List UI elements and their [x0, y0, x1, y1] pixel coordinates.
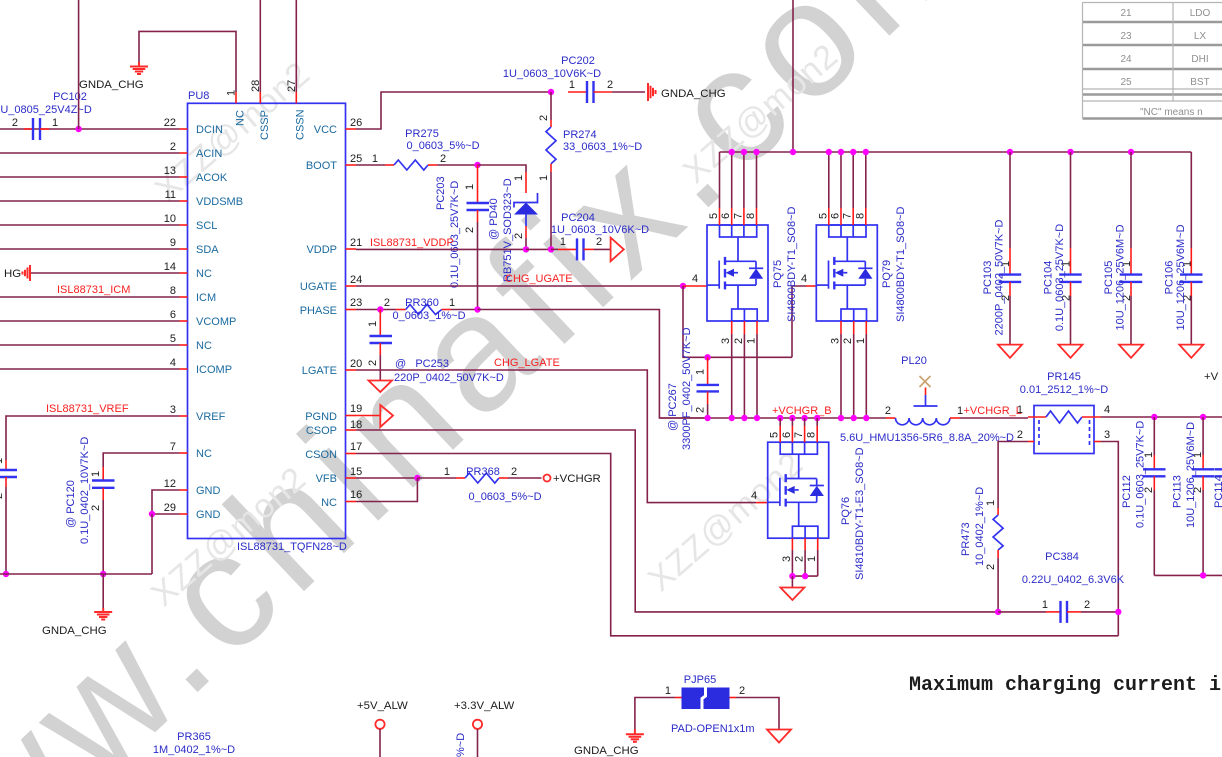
capacitor PC113 — [1172, 417, 1215, 575]
power ground triangle under PQ76 — [780, 588, 804, 601]
svg-text:PR274: PR274 — [563, 129, 597, 141]
inductor PL20 — [840, 355, 1014, 444]
wire VREF — [6, 416, 180, 460]
PU8 top pin names rotated — [235, 109, 307, 140]
svg-text:PC102: PC102 — [53, 91, 87, 103]
node PC103 top junction — [1007, 149, 1013, 155]
wire NC pin5 — [0, 344, 180, 346]
svg-text:10: 10 — [164, 213, 176, 225]
svg-text:1: 1 — [957, 405, 963, 417]
svg-text:PC104: PC104 — [1043, 261, 1055, 295]
svg-text:0_0603_5%~D: 0_0603_5%~D — [406, 140, 479, 152]
wire CSSP pin28 up — [259, 0, 261, 92]
svg-text:SDA: SDA — [196, 244, 219, 256]
svg-text:PC204: PC204 — [561, 212, 595, 224]
svg-text:PC384: PC384 — [1045, 551, 1079, 563]
svg-text:CSON: CSON — [305, 449, 337, 461]
svg-text:2: 2 — [1017, 429, 1023, 441]
PU8 right pin names — [300, 124, 338, 509]
svg-text:0.22U_0402_6.3V6K: 0.22U_0402_6.3V6K — [1022, 574, 1125, 586]
svg-text:10U_1206_25V6M~D: 10U_1206_25V6M~D — [1115, 224, 1127, 330]
wire PR145 pin2 to PR473 — [998, 442, 1028, 509]
svg-text:13: 13 — [164, 165, 176, 177]
node BOOT junction — [474, 162, 480, 168]
svg-text:6: 6 — [720, 213, 732, 219]
svg-text:0.01_2512_1%~D: 0.01_2512_1%~D — [1020, 384, 1108, 396]
svg-text:CSOP: CSOP — [306, 425, 337, 437]
svg-text:2: 2 — [170, 141, 176, 153]
svg-text:2: 2 — [794, 556, 806, 562]
svg-text:+VCHGR_L: +VCHGR_L — [964, 405, 1022, 417]
svg-text:7: 7 — [732, 213, 744, 219]
wire PQ79 pin7 — [852, 152, 854, 208]
svg-text:1: 1 — [665, 685, 671, 697]
svg-text:4: 4 — [801, 273, 807, 285]
svg-text:VCC: VCC — [314, 124, 337, 136]
power ground triangle at PJP65 — [767, 730, 791, 743]
capacitor PC105 — [1103, 152, 1142, 345]
svg-text:1: 1 — [746, 338, 758, 344]
svg-text:9: 9 — [170, 237, 176, 249]
svg-text:0.1U_0603_25V7K~D: 0.1U_0603_25V7K~D — [1054, 224, 1066, 331]
wire PQ79 pin1 — [865, 321, 867, 334]
svg-text:ISL88731_TQFN28~D: ISL88731_TQFN28~D — [237, 541, 347, 553]
svg-text:6: 6 — [830, 213, 842, 219]
capacitor PC114 (clipped at edge) — [1213, 417, 1222, 508]
svg-text:1: 1 — [985, 500, 997, 506]
svg-text:%~D: %~D — [455, 733, 467, 757]
PU8 left pin numbers — [164, 117, 176, 514]
wire PQ75 pin5 — [719, 152, 721, 208]
svg-text:CHG_LGATE: CHG_LGATE — [494, 357, 560, 369]
svg-text:0_0603_1%~D: 0_0603_1%~D — [392, 310, 465, 322]
svg-text:VDDSMB: VDDSMB — [196, 196, 243, 208]
wire SDA — [0, 248, 180, 250]
svg-text:RB751V_SOD323~D: RB751V_SOD323~D — [502, 178, 514, 282]
wire PQ75 pin8 — [756, 152, 758, 208]
resistor PR473 vertical — [960, 487, 1003, 612]
capacitor PC106 — [1163, 152, 1202, 345]
capacitor PC120 — [65, 437, 115, 544]
svg-text:PR365: PR365 — [177, 731, 211, 743]
svg-text:VFB: VFB — [316, 473, 337, 485]
svg-text:ISL88731_ICM: ISL88731_ICM — [57, 284, 130, 296]
wire DCIN vertical to top — [78, 0, 80, 129]
svg-text:1: 1 — [444, 466, 450, 478]
wire PR145 pin3 down — [1101, 442, 1119, 636]
node PHASE/PC203 junction — [474, 306, 480, 312]
wire PQ76 pin1 — [817, 538, 819, 550]
pin digits PQ76 bottom — [781, 556, 818, 562]
svg-text:21: 21 — [350, 237, 362, 249]
svg-text:1: 1 — [0, 458, 5, 464]
svg-text:BST: BST — [1190, 77, 1209, 88]
svg-text:1: 1 — [90, 471, 102, 477]
wire LGATE stub to PQ76 — [756, 502, 768, 504]
wire PQ75 pin6 — [731, 152, 733, 208]
svg-text:1: 1 — [1017, 404, 1023, 416]
wire PC202 to ground — [612, 91, 645, 93]
wire stem to power ground — [791, 576, 793, 587]
svg-text:1: 1 — [806, 556, 818, 562]
svg-text:24: 24 — [1120, 54, 1132, 65]
svg-text:Maximum charging current i: Maximum charging current i — [909, 674, 1221, 697]
PU8 right pin numbers — [350, 117, 362, 501]
wire PHASE with PR360 — [356, 297, 478, 322]
wire VCOMP — [0, 320, 180, 322]
svg-text:2: 2 — [12, 117, 18, 129]
transistor Q=PQ76 — [768, 442, 866, 580]
diode PD40 RB751V — [488, 172, 538, 282]
svg-text:NC: NC — [196, 268, 212, 280]
svg-text:5: 5 — [817, 213, 829, 219]
node PC384/CSON junction — [1115, 609, 1121, 615]
svg-text:VCOMP: VCOMP — [196, 316, 236, 328]
node PR473/CSOP junction — [995, 609, 1001, 615]
op-amp controller U=PU8 ISL88731 box — [188, 90, 347, 553]
svg-text:SCL: SCL — [196, 220, 217, 232]
capacitor PC253 — [367, 310, 504, 385]
svg-text:VREF: VREF — [196, 411, 226, 423]
svg-text:PQ75: PQ75 — [772, 260, 784, 288]
node input junction — [790, 149, 796, 155]
capacitor PC104 — [1043, 152, 1082, 345]
wire NC16 to VFB — [356, 478, 417, 502]
svg-text:2200P_0402_50V7K~D: 2200P_0402_50V7K~D — [994, 219, 1006, 335]
PU8 left pin names — [196, 124, 243, 521]
nodes PQ79 source junctions — [838, 415, 844, 421]
svg-text:SI4800BDY-T1_SO8~D: SI4800BDY-T1_SO8~D — [786, 206, 798, 322]
svg-text:PQ76: PQ76 — [840, 497, 852, 525]
wire PQ75 pin3 — [731, 321, 733, 334]
svg-text:1: 1 — [449, 297, 455, 309]
svg-text:1: 1 — [367, 321, 379, 327]
svg-text:CSSP: CSSP — [259, 110, 271, 140]
svg-text:GND: GND — [196, 485, 221, 497]
svg-text:25: 25 — [350, 153, 362, 165]
svg-text:6: 6 — [781, 432, 793, 438]
wire CSOP routing — [356, 430, 998, 612]
svg-text:@ PD40: @ PD40 — [488, 198, 500, 240]
svg-text:ISL88731_VREF: ISL88731_VREF — [46, 403, 129, 415]
capacitor PC203 — [435, 165, 489, 310]
svg-text:7: 7 — [793, 432, 805, 438]
svg-text:10U_1206_25V6M~D: 10U_1206_25V6M~D — [1185, 422, 1197, 528]
svg-text:PHASE: PHASE — [300, 305, 337, 317]
svg-text:22: 22 — [164, 117, 176, 129]
svg-text:LX: LX — [1194, 31, 1207, 42]
node VFB junction — [414, 475, 420, 481]
svg-text:5: 5 — [170, 333, 176, 345]
svg-text:1: 1 — [538, 175, 550, 181]
capacitor PC384 — [998, 551, 1125, 623]
svg-text:15: 15 — [350, 466, 362, 478]
svg-text:VDDP: VDDP — [306, 244, 337, 256]
wire UGATE down to PC267 row — [683, 286, 792, 357]
wire ACIN — [0, 152, 180, 154]
wire NC pin7 to PC120 — [103, 453, 179, 467]
svg-text:LDO: LDO — [1190, 8, 1211, 19]
svg-text:4: 4 — [170, 357, 176, 369]
svg-text:220P_0402_50V7K~D: 220P_0402_50V7K~D — [394, 372, 504, 384]
svg-text:PQ79: PQ79 — [881, 260, 893, 288]
PU8 top pin numbers rotated — [226, 80, 299, 96]
power terminal +3.3V_ALW — [454, 700, 515, 757]
svg-text:PR275: PR275 — [405, 128, 439, 140]
svg-text:2: 2 — [842, 338, 854, 344]
off-page arrow at PC204 — [611, 238, 624, 262]
svg-text:+VCHGR: +VCHGR — [553, 473, 601, 485]
svg-text:0_0603_5%~D: 0_0603_5%~D — [468, 491, 541, 503]
svg-text:14: 14 — [164, 261, 176, 273]
svg-text:2: 2 — [513, 233, 525, 239]
node PC113 top junction — [1200, 414, 1206, 420]
svg-text:2: 2 — [985, 564, 997, 570]
svg-text:+5V_ALW: +5V_ALW — [357, 700, 408, 712]
svg-text:17: 17 — [350, 441, 362, 453]
svg-text:ISL88731_VDDP: ISL88731_VDDP — [370, 237, 454, 249]
wire riser to PQ79 gate — [792, 286, 806, 357]
svg-text:2: 2 — [885, 405, 891, 417]
svg-text:7: 7 — [842, 213, 854, 219]
svg-text:16: 16 — [350, 489, 362, 501]
wire GND column to bus — [151, 514, 153, 574]
pin digits PQ79 bottom — [830, 338, 867, 344]
node PC120 bus junction — [100, 571, 106, 577]
wire CSON routing — [356, 454, 1118, 636]
svg-text:4: 4 — [751, 490, 757, 502]
svg-text:6: 6 — [170, 309, 176, 321]
capacitor PC267 — [667, 327, 719, 450]
wire PD40 to PR274 node — [526, 248, 551, 250]
pin table top right — [1083, 3, 1222, 119]
capacitor PC103 — [982, 152, 1021, 345]
wire UGATE to PQ75 gate — [683, 285, 707, 287]
svg-text:2: 2 — [695, 407, 707, 413]
svg-text:2: 2 — [511, 466, 517, 478]
power ground triangle PC103 — [998, 345, 1022, 358]
svg-text:SI4800BDY-T1_SO8~D: SI4800BDY-T1_SO8~D — [895, 206, 907, 322]
svg-text:2: 2 — [739, 685, 745, 697]
svg-text:1: 1 — [855, 338, 867, 344]
wire PQ79 pin6 — [840, 152, 842, 208]
transistor Q=PQ75 — [707, 206, 798, 322]
svg-text:19: 19 — [350, 403, 362, 415]
wire PQ76 pin5 — [779, 418, 781, 426]
nodes PQ76 drain junctions — [777, 415, 783, 421]
svg-text:29: 29 — [164, 502, 176, 514]
pin digits PQ75 top — [708, 213, 757, 219]
wire output rail right — [1101, 416, 1222, 418]
node UGATE junction — [680, 283, 686, 289]
svg-text:NC: NC — [235, 110, 247, 126]
wire PQ76 pin3 — [791, 538, 793, 550]
svg-text:PC203: PC203 — [435, 176, 447, 210]
svg-text:CSSN: CSSN — [295, 109, 307, 140]
svg-text:PC103: PC103 — [982, 261, 994, 295]
wire PQ79 pin5 — [828, 152, 830, 208]
wire PQ75 pin7 — [743, 152, 745, 208]
svg-text:2: 2 — [90, 505, 102, 511]
wire top input bus — [720, 151, 1192, 153]
svg-text:ACIN: ACIN — [196, 148, 222, 160]
resistor PR274 vertical — [538, 92, 642, 249]
svg-text:@ PC253: @ PC253 — [395, 358, 449, 370]
node VREF bus junction — [3, 571, 9, 577]
wire VDDP — [356, 248, 526, 250]
svg-text:33_0603_1%~D: 33_0603_1%~D — [563, 141, 642, 153]
svg-text:23: 23 — [1120, 31, 1132, 42]
ground GNDA_CHG at PJP65 — [626, 729, 644, 742]
node DCIN junction — [75, 126, 81, 132]
terminal VCHGR circle — [544, 475, 551, 482]
transistor Q=PQ79 — [816, 206, 907, 322]
svg-text:26: 26 — [350, 117, 362, 129]
wire PQ79 pin8 — [865, 152, 867, 208]
node PC267 top junction — [704, 354, 710, 360]
PU8 top pin stubs — [236, 92, 296, 103]
svg-text:12: 12 — [164, 478, 176, 490]
node PC105 top junction — [1128, 149, 1134, 155]
svg-text:11: 11 — [165, 189, 176, 201]
svg-text:"NC" means n: "NC" means n — [1140, 107, 1203, 118]
svg-text:PC112: PC112 — [1121, 475, 1133, 508]
pin digits PQ76 top — [769, 432, 818, 438]
svg-text:PL20: PL20 — [901, 355, 927, 367]
power symbol CHG at pin14 — [23, 265, 31, 281]
wire VCHGR_L — [960, 417, 1029, 419]
svg-text:BOOT: BOOT — [306, 160, 337, 172]
svg-text:3: 3 — [720, 338, 732, 344]
svg-text:1: 1 — [569, 79, 575, 91]
wire PC120 to bus — [102, 500, 104, 574]
wire DCIN left — [0, 128, 180, 130]
svg-text:3300PF_0402_50V7K~D: 3300PF_0402_50V7K~D — [681, 327, 693, 450]
svg-text:2: 2 — [538, 115, 550, 121]
svg-text:25: 25 — [1120, 77, 1132, 88]
wire VDDSMB — [0, 200, 180, 202]
wire BOOT to PD40 — [478, 165, 527, 172]
svg-text:+3.3V_ALW: +3.3V_ALW — [454, 700, 515, 712]
svg-text:1U_0603_10V6K~D: 1U_0603_10V6K~D — [551, 224, 649, 236]
wire stem to ground — [102, 574, 104, 608]
wire GND12 — [152, 490, 180, 514]
power ground triangle PC104 — [1059, 345, 1083, 358]
svg-text:ACOK: ACOK — [196, 172, 228, 184]
svg-text:GNDA_CHG: GNDA_CHG — [574, 745, 639, 757]
resistor PR365 labels — [153, 731, 235, 756]
svg-text:GNDA_CHG: GNDA_CHG — [79, 79, 144, 91]
svg-text:2: 2 — [607, 79, 613, 91]
svg-text:5.6U_HMU1356-5R6_8.8A_20%~D: 5.6U_HMU1356-5R6_8.8A_20%~D — [840, 432, 1014, 444]
jumper PJP65 — [665, 674, 755, 735]
svg-text:2: 2 — [1084, 599, 1090, 611]
svg-text:PC202: PC202 — [561, 55, 595, 67]
svg-text:1: 1 — [695, 369, 707, 375]
wire PJP65 pin2 to power ground — [736, 698, 779, 730]
wire bottom right rail — [1154, 574, 1222, 576]
svg-text:7: 7 — [170, 441, 176, 453]
svg-text:GNDA_CHG: GNDA_CHG — [42, 625, 107, 637]
svg-text:2: 2 — [367, 360, 379, 366]
wire PQ76 pin8 — [816, 418, 818, 426]
svg-text:1: 1 — [513, 175, 525, 181]
svg-text:@ PC267: @ PC267 — [667, 383, 679, 431]
ground triangle at PC253 — [369, 381, 393, 393]
svg-text:0.1U_0603_25V7K~D: 0.1U_0603_25V7K~D — [1135, 421, 1147, 528]
power terminal +5V_ALW — [357, 700, 408, 757]
svg-text:PC114: PC114 — [1213, 475, 1222, 508]
svg-text:GNDA_CHG: GNDA_CHG — [661, 88, 726, 100]
svg-text:10U_1206_25V6M~D: 10U_1206_25V6M~D — [1175, 224, 1187, 330]
off-page arrow at PGND — [356, 405, 393, 427]
power ground triangle PC106 — [1179, 345, 1203, 358]
svg-text:21: 21 — [1120, 8, 1132, 19]
wire PQ76 source tie — [792, 575, 817, 577]
node VCC/PC202 junction — [548, 89, 554, 95]
svg-text:2: 2 — [384, 297, 390, 309]
svg-text:+V: +V — [1204, 371, 1219, 383]
svg-text:24: 24 — [350, 274, 362, 286]
svg-text:GND: GND — [196, 509, 221, 521]
svg-text:PR145: PR145 — [1047, 371, 1081, 383]
PU8 right pin stubs — [346, 129, 357, 502]
node PC112 top junction — [1151, 414, 1157, 420]
svg-text:PR473: PR473 — [960, 522, 972, 556]
wire pin1 NC loop to ground — [139, 31, 236, 92]
node PC267 bottom junction — [704, 415, 710, 421]
svg-text:PAD-OPEN1x1m: PAD-OPEN1x1m — [671, 723, 755, 735]
svg-text:PJP65: PJP65 — [684, 674, 716, 686]
node VDDP/PD40 junction — [523, 246, 529, 252]
resistor PR275 on BOOT — [356, 128, 480, 170]
svg-text:1: 1 — [560, 236, 566, 248]
svg-text:PR368: PR368 — [466, 466, 500, 478]
node PHASE junction at PR360 left — [377, 306, 383, 312]
node GND junction — [149, 511, 155, 517]
svg-text:1: 1 — [464, 184, 476, 190]
wire PQ79 pin2 — [853, 321, 855, 334]
wire PQ76 pin7 — [804, 418, 806, 426]
wire CHG_LGATE — [356, 370, 756, 503]
svg-text:3: 3 — [1104, 429, 1110, 441]
nodes PQ75 source junctions — [729, 415, 735, 421]
svg-text:1: 1 — [372, 153, 378, 165]
svg-text:8: 8 — [745, 213, 757, 219]
svg-text:2: 2 — [464, 227, 476, 233]
node VDDP/PR274 junction — [548, 246, 554, 252]
svg-text:20: 20 — [350, 358, 362, 370]
wire PQ75 pin2 — [743, 321, 745, 334]
svg-text:DHI: DHI — [1191, 54, 1208, 65]
wire VREF cap to bottom bus — [5, 487, 7, 574]
wire PQ75 pin1 — [756, 321, 758, 334]
svg-text:2: 2 — [440, 153, 446, 165]
capacitor PC102 — [0, 91, 92, 140]
wire PHASE to VCHGR_B bus — [478, 310, 708, 419]
node PC104 top junction — [1067, 149, 1073, 155]
capacitor on VREF column (clipped at left edge) — [0, 458, 17, 499]
svg-text:ICOMP: ICOMP — [196, 364, 232, 376]
svg-text:PR360: PR360 — [405, 297, 439, 309]
svg-text:3: 3 — [830, 338, 842, 344]
svg-text:2: 2 — [596, 236, 602, 248]
svg-text:5: 5 — [708, 213, 720, 219]
wire ICOMP — [0, 368, 180, 370]
svg-text:5: 5 — [769, 432, 781, 438]
svg-text:NC: NC — [321, 497, 337, 509]
svg-text:UGATE: UGATE — [300, 281, 337, 293]
